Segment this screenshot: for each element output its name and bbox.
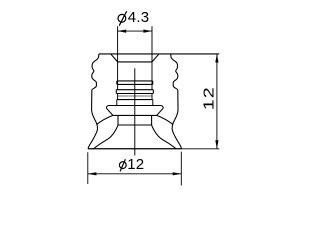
arrowhead left of Ø4.3 bbox=[118, 30, 127, 33]
cup lip inner slant right bbox=[157, 115, 173, 124]
collar step left bbox=[116, 100, 118, 106]
barb groove upper edge right bbox=[152, 81, 154, 85]
cup cavity wall edge right bbox=[151, 115, 153, 125]
dimension text 12 (rotated) bbox=[200, 86, 217, 110]
collar right side and cup outer wall right bbox=[172, 90, 182, 149]
extension line right of Ø12 bbox=[180, 152, 182, 186]
flange right slant bbox=[157, 108, 164, 115]
collar step right bbox=[152, 100, 154, 106]
chamfer left bbox=[111, 54, 118, 62]
cup cavity wall edge left bbox=[117, 115, 119, 125]
barb groove upper edge left bbox=[116, 81, 118, 85]
arrowhead right of Ø4.3 bbox=[143, 30, 152, 33]
right grip profile of fitting bbox=[171, 54, 178, 90]
flange bottom edge bbox=[113, 114, 157, 116]
chamfer bottom edge bbox=[118, 61, 152, 63]
arrowhead left of Ø12 bbox=[88, 172, 97, 175]
flange left slant bbox=[106, 108, 113, 115]
cup bottom edge bbox=[88, 148, 182, 150]
bottom extension line for 12 dim bbox=[182, 148, 220, 150]
centerline bbox=[134, 68, 136, 155]
dimension text Ø12 bbox=[127, 156, 144, 173]
chamfer right bbox=[152, 54, 159, 62]
cup cavity top face bbox=[118, 124, 152, 126]
barb ring line 6 bbox=[117, 99, 153, 101]
svg-text:12: 12 bbox=[127, 156, 144, 173]
barb ring line 4 bbox=[116, 93, 153, 95]
svg-text:4.3: 4.3 bbox=[128, 9, 150, 26]
diameter symbol of Ø4.3 bbox=[118, 11, 127, 26]
dimension line Ø12 bbox=[88, 173, 182, 175]
extension / bore line left (x=117.6) bbox=[117, 26, 119, 99]
top face line (extends right as extension line for 12 dim) bbox=[99, 53, 219, 55]
extension / bore line right (x=152) bbox=[151, 26, 153, 99]
barb groove edge right bbox=[152, 90, 154, 94]
cup lip inner slant left bbox=[97, 115, 113, 124]
left grip profile of fitting bbox=[92, 54, 99, 90]
collar left side and cup outer wall left bbox=[88, 90, 98, 149]
arrowhead top of 12 bbox=[215, 54, 218, 63]
diameter symbol of Ø12 bbox=[119, 159, 126, 171]
svg-text:12: 12 bbox=[200, 86, 217, 110]
extension line left of Ø12 bbox=[87, 152, 89, 184]
dimension text Ø4.3 bbox=[128, 9, 150, 26]
cup cavity corner slant left bbox=[94, 125, 118, 149]
dimension line 12 (vertical, right) bbox=[216, 54, 218, 149]
barb ring line 5 bbox=[118, 95, 152, 97]
barb ring line 3 bbox=[116, 89, 153, 91]
dimension line Ø4.3 bbox=[118, 30, 152, 32]
barb ring line 1 bbox=[117, 80, 153, 82]
barb groove edge left bbox=[115, 90, 117, 94]
arrowhead right of Ø12 bbox=[173, 172, 182, 175]
flange top edge bbox=[106, 106, 163, 109]
arrowhead bottom of 12 bbox=[215, 140, 218, 149]
barb ring line 2 bbox=[117, 83, 153, 85]
cup cavity corner slant right bbox=[152, 125, 176, 149]
